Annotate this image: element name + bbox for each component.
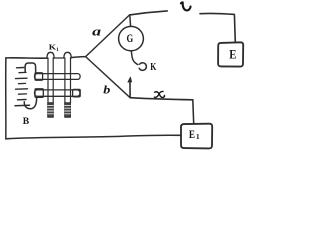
battery B: liquid dash 2	[19, 71, 26, 73]
cell E1: case box	[181, 124, 212, 149]
jockey wire down to node	[129, 82, 131, 98]
svg-text:1: 1	[196, 132, 200, 141]
key K1: left post body	[48, 58, 53, 103]
label i (current) drawn as script iota	[181, 2, 191, 10]
svg-text:E: E	[189, 129, 195, 141]
battery B: liquid dash 5	[16, 88, 28, 90]
battery B: liquid dash 3	[16, 77, 28, 79]
label x (unknown emf wire)	[154, 91, 164, 97]
svg-text:E: E	[229, 46, 236, 61]
key K1: bar 2 left clamp pad	[35, 89, 43, 98]
key K1: left post threaded bottom	[48, 103, 54, 118]
key K1: right post cap	[64, 52, 71, 58]
battery B: liquid dash 8	[15, 104, 30, 107]
wire: right cap to node of diagonals	[71, 57, 86, 58]
battery B: liquid dash 6	[19, 93, 27, 95]
svg-text:a: a	[92, 25, 101, 39]
key K1: right post body	[65, 58, 71, 103]
wire: big loop top edge from K1 left post to top-left corner	[6, 57, 48, 59]
battery B: electrode J-hook to key bar 2	[24, 98, 36, 109]
galvanometer G: case circle	[119, 26, 144, 50]
key K1: right post threaded bottom	[65, 103, 71, 118]
key K: contact loop	[139, 63, 146, 71]
svg-text:G: G	[127, 33, 134, 46]
galvanometer G: lead down to key K contact	[131, 51, 138, 65]
wire x: horizontal to cell E1	[130, 98, 193, 100]
key K1: left post cap	[47, 52, 54, 58]
wire a: diagonal up to galvanometer junction	[86, 15, 130, 57]
svg-text:b: b	[103, 83, 111, 97]
wire b: diagonal down to jockey node	[86, 57, 131, 98]
battery B: liquid dash 7	[18, 99, 27, 101]
wire: top-right horizontal down to cell E	[200, 13, 235, 42]
battery B: electrode arch to key bar 1	[25, 63, 36, 74]
svg-text:B: B	[23, 116, 30, 127]
wire: vertical drop into top of E1	[192, 100, 195, 124]
key K1: cross bar 1	[35, 74, 81, 80]
cell E: case box	[218, 42, 243, 66]
jockey arrow head	[128, 77, 132, 82]
wire: big loop bottom edge running to cell E1	[6, 135, 181, 139]
wire: top-left horizontal (current i)	[130, 11, 168, 15]
battery B: liquid dash 4	[19, 82, 26, 84]
key K1: cross bar 2	[35, 90, 80, 96]
battery B: liquid dash 1	[17, 67, 24, 69]
key K1: bar 2 right clamp pad	[73, 89, 81, 96]
wire: between K1 post caps	[54, 57, 65, 59]
wire: big loop left edge	[5, 58, 7, 139]
key K1: bar 1 left clamp pad	[35, 73, 43, 80]
svg-text:K: K	[150, 61, 156, 72]
galvanometer G: connector from junction	[129, 15, 132, 27]
svg-text:1: 1	[56, 47, 59, 53]
